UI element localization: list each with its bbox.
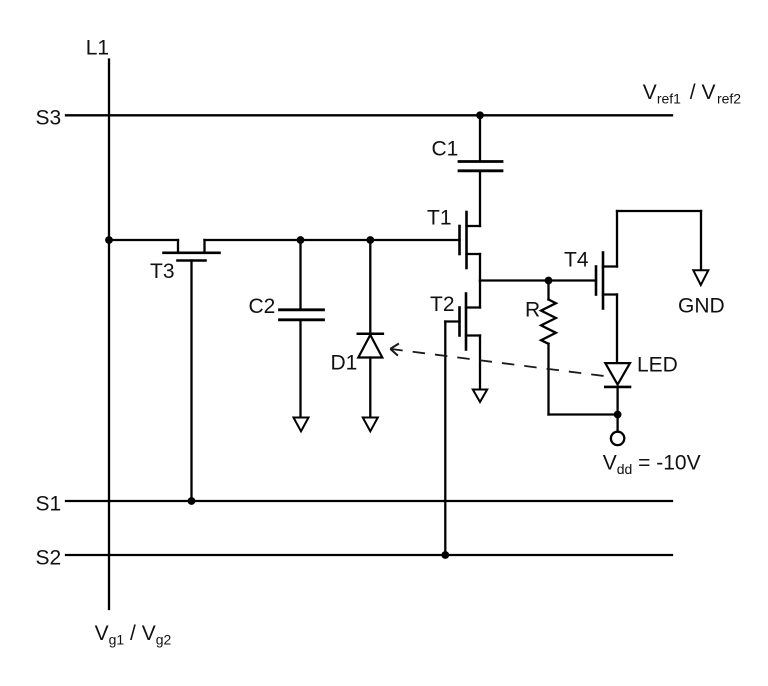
svg-text:GND: GND [678,295,725,318]
svg-text:S2: S2 [36,547,62,570]
svg-text:LED: LED [637,354,678,377]
svg-text:R: R [525,299,540,322]
svg-text:S3: S3 [36,107,62,130]
svg-text:S1: S1 [36,493,62,516]
svg-text:C1: C1 [432,138,459,161]
svg-text:T2: T2 [430,293,455,316]
svg-text:T1: T1 [427,207,452,230]
svg-text:D1: D1 [331,352,358,375]
svg-text:T4: T4 [564,249,589,272]
svg-text:C2: C2 [249,295,276,318]
svg-text:T3: T3 [150,260,175,283]
svg-text:L1: L1 [86,37,109,60]
